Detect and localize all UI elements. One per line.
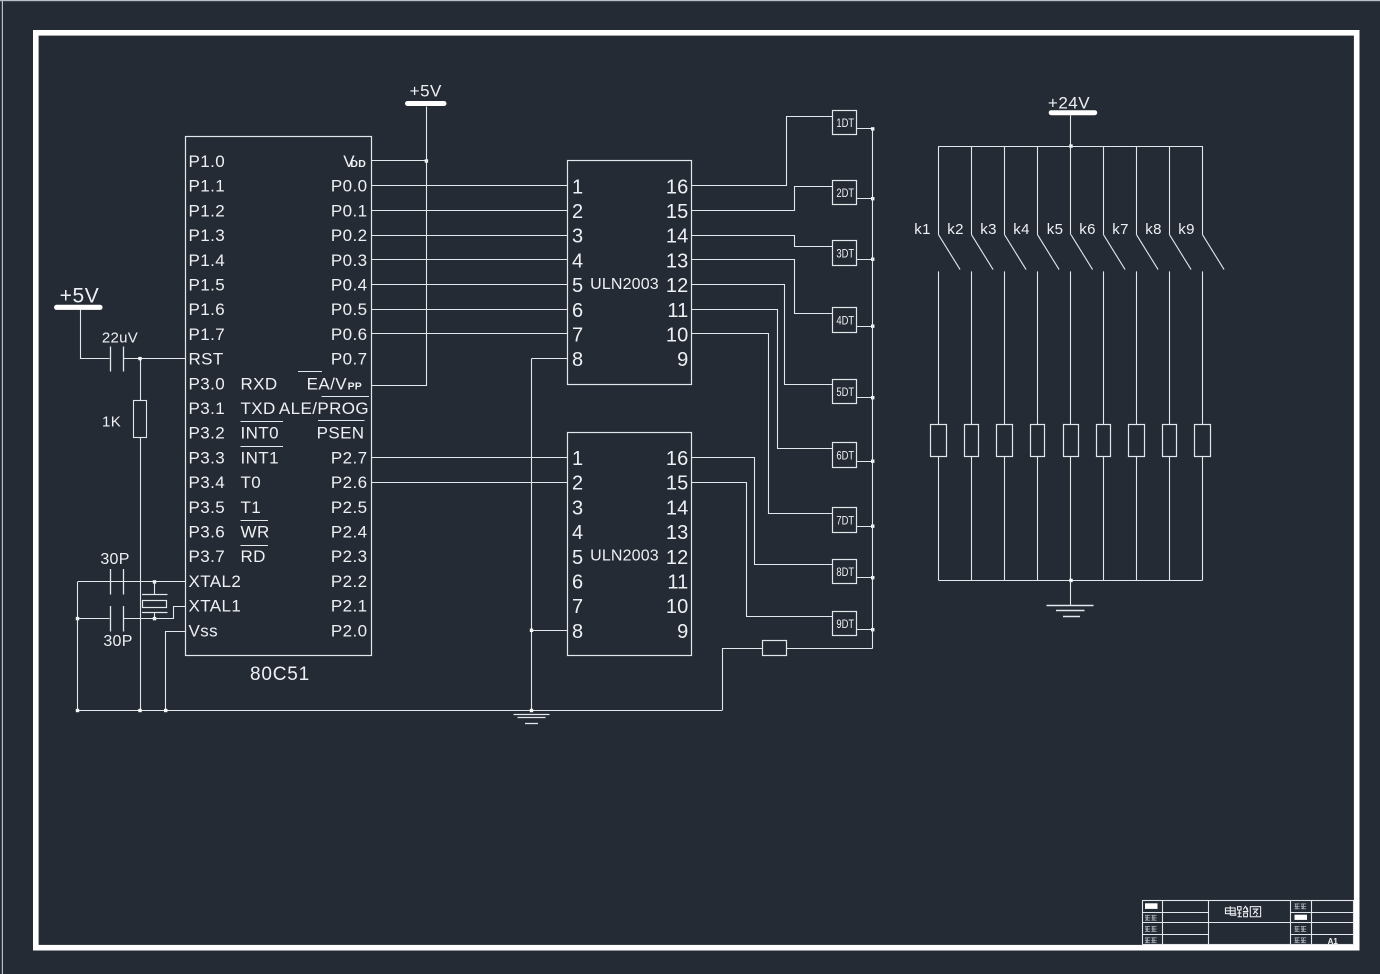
wire P0.1 to ULN2003(A) pin 2 — [371, 210, 568, 212]
svg-text:P1.4: P1.4 — [189, 251, 226, 270]
svg-text:P0.1: P0.1 — [331, 201, 368, 220]
U2 pin number 2 — [572, 201, 583, 223]
svg-text:3: 3 — [572, 226, 583, 248]
switch k5 blade — [1071, 235, 1093, 270]
resistor RL7 body — [1129, 425, 1145, 457]
wire ULN output to 2DT — [692, 187, 833, 211]
pin label P3.5 — [189, 498, 226, 517]
title block label hang2 (left row3) — [1145, 926, 1157, 931]
svg-text:16: 16 — [666, 448, 689, 470]
resistor RL1 body — [931, 425, 947, 457]
svg-text:RST: RST — [189, 350, 224, 369]
svg-text:14: 14 — [666, 226, 689, 248]
resistor RL5 body — [1064, 425, 1079, 457]
svg-text:10: 10 — [666, 325, 689, 347]
ic U1 80C51 body — [186, 137, 372, 656]
svg-text:5DT: 5DT — [836, 385, 854, 399]
wire VDD stub — [371, 160, 426, 162]
pin label XTAL1 — [189, 597, 242, 616]
title block label hang3 (left row4) — [1145, 938, 1157, 943]
svg-text:+24V: +24V — [1048, 93, 1090, 112]
wire XTAL2 row — [78, 581, 186, 583]
label k2 — [947, 221, 963, 238]
wire +24V to top bus — [1070, 115, 1072, 146]
pin label P2.6 — [331, 473, 368, 492]
U3 pin number 1 — [572, 448, 583, 470]
resistor RL6 body — [1097, 425, 1111, 457]
junction node rail/ULN pin8 — [530, 709, 533, 712]
label 2DT — [836, 186, 854, 200]
wire DT common bus — [872, 129, 874, 648]
wire bottom bus — [939, 580, 1203, 582]
svg-text:ULN2003: ULN2003 — [590, 548, 659, 565]
svg-text:13: 13 — [666, 522, 689, 544]
pin label P1.3 — [189, 226, 226, 245]
svg-text:6: 6 — [572, 300, 583, 322]
wire P0.3 to ULN2003(A) pin 4 — [371, 259, 568, 261]
switch k7 blade — [1137, 235, 1159, 270]
wire RL2 to bottom bus — [971, 456, 973, 580]
U3 pin number 15 — [666, 473, 689, 495]
pin label P2.7 — [331, 448, 368, 467]
power symbol +5V (left) — [54, 285, 103, 310]
svg-text:k3: k3 — [980, 221, 996, 238]
label k6 — [1079, 221, 1095, 238]
junction node crystal top — [153, 580, 156, 583]
svg-text:P1.0: P1.0 — [189, 152, 226, 171]
svg-text:15: 15 — [666, 473, 689, 495]
svg-text:EA/V: EA/V — [307, 374, 348, 393]
svg-text:1: 1 — [572, 448, 583, 470]
svg-text:P0.5: P0.5 — [331, 300, 368, 319]
pin function label INT1 (active low) — [241, 447, 284, 468]
switch k8 blade — [1170, 235, 1192, 270]
wire C1 to RST — [124, 358, 186, 360]
svg-text:DD: DD — [350, 158, 366, 170]
svg-text:Vss: Vss — [189, 621, 219, 640]
resistor R2 body — [763, 641, 787, 656]
crystal Y1 — [142, 582, 168, 619]
junction node bus/7DT — [871, 525, 874, 528]
wire top bus — [939, 146, 1203, 148]
svg-text:7DT: 7DT — [836, 513, 854, 527]
U3 pin number 16 — [666, 448, 689, 470]
svg-text:ALE/PROG: ALE/PROG — [279, 399, 369, 418]
wire ULN output to 4DT — [692, 260, 833, 314]
junction node rail/left vertical — [76, 709, 79, 712]
pin function label TXD — [241, 399, 276, 418]
junction node bus/6DT — [871, 460, 874, 463]
wire switch k2 lower — [971, 271, 973, 425]
svg-text:P3.2: P3.2 — [189, 424, 226, 443]
pin label P0.6 — [331, 325, 368, 344]
power symbol +24V — [1048, 93, 1097, 115]
wire U2 pin8 down to ground — [531, 359, 533, 711]
wire RL5 to bottom bus — [1070, 456, 1072, 580]
wire 6DT to bus — [857, 461, 873, 463]
label 30P (C2) — [100, 551, 129, 568]
solenoid box 1DT — [833, 111, 857, 135]
resistor RL3 body — [997, 425, 1013, 457]
U2 pin number 12 — [666, 275, 689, 297]
svg-text:P3.0: P3.0 — [189, 374, 226, 393]
pin label XTAL2 — [189, 572, 242, 591]
svg-text:+5V: +5V — [60, 285, 100, 308]
solenoid box 5DT — [833, 380, 857, 404]
U3 pin number 4 — [572, 522, 583, 544]
wire R2 to ground rail — [723, 649, 763, 711]
title text 电路图 — [1225, 906, 1260, 917]
svg-text:RD: RD — [241, 547, 266, 566]
svg-text:22uV: 22uV — [102, 330, 138, 347]
label 9DT — [836, 617, 854, 631]
label k9 — [1178, 221, 1194, 238]
junction node bus/1DT — [871, 127, 874, 130]
wire RL6 to bottom bus — [1103, 456, 1105, 580]
U2 pin number 8 — [572, 349, 583, 371]
pin label P2.0 — [331, 621, 368, 640]
wire U3 pin8 stub — [532, 630, 568, 632]
svg-text:P3.7: P3.7 — [189, 547, 226, 566]
svg-text:P3.1: P3.1 — [189, 399, 226, 418]
wire C3 to left vertical — [78, 618, 110, 620]
svg-text:P1.7: P1.7 — [189, 325, 226, 344]
junction node bus/2DT — [871, 197, 874, 200]
wire P0.2 to ULN2003(A) pin 3 — [371, 235, 568, 237]
wire switch k7 lower — [1136, 271, 1138, 425]
svg-text:80C51: 80C51 — [250, 664, 310, 685]
pin function label INT0 (active low) — [241, 422, 284, 443]
wire P2.7 to ULN2003(B) pin 1 — [371, 457, 568, 459]
svg-text:10: 10 — [666, 596, 689, 618]
svg-text:k8: k8 — [1145, 221, 1161, 238]
pin label P3.7 — [189, 547, 226, 566]
ground symbol (right) — [1047, 606, 1094, 617]
label 3DT — [836, 246, 854, 260]
wire XTAL1 step — [155, 607, 186, 619]
pin label P0.2 — [331, 226, 368, 245]
svg-text:k6: k6 — [1079, 221, 1095, 238]
pin label P3.3 — [189, 448, 226, 467]
U2 pin number 10 — [666, 325, 689, 347]
wire 4DT to bus — [857, 326, 873, 328]
ground rail wire — [78, 710, 723, 712]
svg-text:1K: 1K — [102, 414, 121, 431]
wire switch k6 upper — [1103, 146, 1105, 235]
pin label P2.5 — [331, 498, 368, 517]
svg-text:13: 13 — [666, 250, 689, 272]
pin function label RD (active low) — [241, 546, 269, 567]
wire +5V vertical to EA/VPP — [372, 107, 427, 386]
svg-text:12: 12 — [666, 275, 689, 297]
wire P0.5 to ULN2003(A) pin 6 — [371, 309, 568, 311]
wire switch k4 lower — [1037, 271, 1039, 425]
junction node crystal bottom — [153, 617, 156, 620]
resistor RL9 body — [1195, 425, 1211, 457]
label k3 — [980, 221, 996, 238]
svg-text:P2.3: P2.3 — [331, 547, 368, 566]
svg-text:30P: 30P — [103, 633, 132, 650]
svg-text:16: 16 — [666, 176, 689, 198]
pin label P1.7 — [189, 325, 226, 344]
wire switch k1 lower — [938, 271, 940, 425]
svg-text:RXD: RXD — [241, 374, 278, 393]
svg-text:k5: k5 — [1047, 221, 1063, 238]
svg-text:4: 4 — [572, 522, 583, 544]
svg-text:P3.3: P3.3 — [189, 448, 226, 467]
U2 pin number 13 — [666, 250, 689, 272]
svg-text:k4: k4 — [1013, 221, 1029, 238]
junction node RST/R1 — [138, 357, 141, 360]
svg-text:P1.1: P1.1 — [189, 177, 226, 196]
label 5DT — [836, 385, 854, 399]
svg-text:4DT: 4DT — [836, 313, 854, 327]
title block label hang1 (left row2) — [1145, 915, 1157, 920]
svg-text:12: 12 — [666, 547, 689, 569]
label 22uV — [102, 330, 138, 347]
pin label P1.4 — [189, 251, 226, 270]
wire P0.4 to ULN2003(A) pin 5 — [371, 284, 568, 286]
svg-text:11: 11 — [667, 572, 688, 594]
svg-text:P0.3: P0.3 — [331, 251, 368, 270]
wire P0.0 to ULN2003(A) pin 1 — [371, 185, 568, 187]
solenoid box 4DT — [833, 308, 857, 333]
sheet edge line left — [2, 0, 3, 974]
junction node U3 pin8 — [530, 629, 533, 632]
svg-text:XTAL2: XTAL2 — [189, 572, 242, 591]
label 30P (C3) — [103, 633, 132, 650]
svg-text:2: 2 — [572, 473, 583, 495]
pin label PSEN (active low) — [317, 421, 365, 443]
wire to ground (right) — [1070, 580, 1072, 604]
label 80C51 — [250, 664, 310, 685]
switch k2 blade — [972, 235, 994, 270]
wire switch k3 upper — [1004, 146, 1006, 235]
svg-text:P2.7: P2.7 — [331, 448, 368, 467]
svg-text:P0.4: P0.4 — [331, 276, 368, 295]
pin label P3.4 — [189, 473, 226, 492]
pin label P3.6 — [189, 523, 226, 542]
svg-text:8: 8 — [572, 621, 583, 643]
svg-text:P2.0: P2.0 — [331, 621, 368, 640]
wire P0.6 to ULN2003(A) pin 7 — [371, 333, 568, 335]
svg-text:T0: T0 — [241, 473, 262, 492]
svg-text:1DT: 1DT — [836, 116, 854, 130]
U2 pin number 16 — [666, 176, 689, 198]
pin label P0.5 — [331, 300, 368, 319]
pin label P1.1 — [189, 177, 226, 196]
pin function label RXD — [241, 374, 278, 393]
wire node to R1 — [140, 359, 142, 401]
svg-text:PSEN: PSEN — [317, 424, 365, 443]
svg-text:P0.2: P0.2 — [331, 226, 368, 245]
solenoid box 9DT — [833, 612, 857, 636]
svg-text:3DT: 3DT — [836, 246, 854, 260]
U2 pin number 5 — [572, 275, 583, 297]
label k8 — [1145, 221, 1161, 238]
junction node rail/Vss — [164, 709, 167, 712]
label 1DT — [836, 116, 854, 130]
U2 pin number 3 — [572, 226, 583, 248]
ic U3 ULN2003 body — [568, 433, 692, 656]
label 6DT — [836, 448, 854, 462]
wire ULN output to 7DT — [692, 334, 833, 514]
wire switch k7 upper — [1136, 146, 1138, 235]
svg-text:P3.6: P3.6 — [189, 523, 226, 542]
label k1 — [914, 221, 930, 238]
U3 pin number 9 — [677, 621, 688, 643]
pin label P0.1 — [331, 201, 368, 220]
wire 2DT to bus — [857, 198, 873, 200]
U3 pin number 13 — [666, 522, 689, 544]
svg-text:9DT: 9DT — [836, 617, 854, 631]
wire switch k5 lower — [1070, 271, 1072, 425]
svg-text:P2.2: P2.2 — [331, 572, 368, 591]
pin label P2.3 — [331, 547, 368, 566]
wire RL8 to bottom bus — [1169, 456, 1171, 580]
capacitor C2 30P plates — [111, 569, 124, 595]
wire switch k1 upper — [938, 146, 940, 235]
svg-text:5: 5 — [572, 547, 583, 569]
svg-text:P1.3: P1.3 — [189, 226, 226, 245]
U3 pin number 7 — [572, 596, 583, 618]
U3 pin number 5 — [572, 547, 583, 569]
svg-text:T1: T1 — [241, 498, 262, 517]
solenoid box 3DT — [833, 241, 857, 266]
pin label EA/VPP (EA active low) — [298, 372, 362, 394]
solenoid box 8DT — [833, 560, 857, 584]
svg-text:9: 9 — [677, 621, 688, 643]
svg-text:P2.5: P2.5 — [331, 498, 368, 517]
pin label P2.1 — [331, 597, 368, 616]
junction node bus/8DT — [871, 576, 874, 579]
svg-text:P0.7: P0.7 — [331, 350, 368, 369]
svg-text:P1.2: P1.2 — [189, 201, 226, 220]
svg-text:+5V: +5V — [410, 81, 442, 100]
pin label P2.4 — [331, 523, 368, 542]
solenoid box 2DT — [833, 181, 857, 205]
label 4DT — [836, 313, 854, 327]
pin function label WR (active low) — [241, 521, 270, 542]
svg-text:4: 4 — [572, 250, 583, 272]
pin function label T1 — [241, 498, 262, 517]
svg-text:P2.1: P2.1 — [331, 597, 368, 616]
ground symbol (left) — [514, 715, 550, 724]
svg-text:2DT: 2DT — [836, 186, 854, 200]
wire 1DT to bus — [857, 128, 873, 130]
wire switch k6 lower — [1103, 271, 1105, 425]
wire switch k8 upper — [1169, 146, 1171, 235]
pin label P0.4 — [331, 276, 368, 295]
capacitor C1 22uV plates — [111, 347, 124, 372]
svg-text:k1: k1 — [914, 221, 930, 238]
wire 9DT to bus — [857, 629, 873, 631]
label 1K — [102, 414, 121, 431]
resistor R1 1K body — [134, 401, 147, 438]
switch k9 blade — [1203, 235, 1225, 270]
svg-text:XTAL1: XTAL1 — [189, 597, 242, 616]
label 7DT — [836, 513, 854, 527]
wire switch k9 lower — [1202, 271, 1204, 425]
U2 pin number 1 — [572, 176, 583, 198]
svg-text:7: 7 — [572, 325, 583, 347]
wire RL3 to bottom bus — [1004, 456, 1006, 580]
title block label drawing no — [1295, 938, 1307, 943]
resistor RL8 body — [1163, 425, 1177, 457]
title block label scale — [1295, 926, 1307, 931]
svg-text:14: 14 — [666, 497, 689, 519]
resistor RL2 body — [965, 425, 979, 457]
U3 pin number 8 — [572, 621, 583, 643]
svg-text:k7: k7 — [1112, 221, 1128, 238]
U3 pin number 6 — [572, 572, 583, 594]
wire 5DT to bus — [857, 397, 873, 399]
junction node bus/4DT — [871, 325, 874, 328]
svg-text:15: 15 — [666, 201, 689, 223]
wire Vss step — [166, 632, 186, 711]
svg-text:WR: WR — [241, 523, 270, 542]
svg-text:INT0: INT0 — [241, 424, 279, 443]
U2 pin number 14 — [666, 226, 689, 248]
title block filled cell (row1 left) — [1145, 903, 1158, 909]
wire RL7 to bottom bus — [1136, 456, 1138, 580]
wire ULN output to 1DT — [692, 117, 833, 186]
junction node bottom bus/ground — [1069, 579, 1072, 582]
pin label P1.6 — [189, 300, 226, 319]
svg-text:6DT: 6DT — [836, 448, 854, 462]
junction node bus/5DT — [871, 396, 874, 399]
title block text A1 — [1328, 937, 1339, 946]
svg-text:30P: 30P — [100, 551, 129, 568]
switch k4 blade — [1038, 235, 1060, 270]
pin label P1.5 — [189, 276, 226, 295]
capacitor C3 30P plates — [111, 606, 124, 632]
label k7 — [1112, 221, 1128, 238]
svg-text:P1.5: P1.5 — [189, 276, 226, 295]
pin label VDD — [343, 152, 366, 171]
solenoid box 6DT — [833, 443, 857, 468]
wire 3DT to bus — [857, 259, 873, 261]
pin label P0.3 — [331, 251, 368, 270]
svg-text:INT1: INT1 — [241, 448, 279, 467]
wire 8DT to bus — [857, 577, 873, 579]
svg-text:P0.6: P0.6 — [331, 325, 368, 344]
wire ULN output to 8DT — [692, 458, 833, 565]
label ULN2003 (U3) — [590, 548, 659, 565]
pin label P2.2 — [331, 572, 368, 591]
svg-text:5: 5 — [572, 275, 583, 297]
U3 pin number 12 — [666, 547, 689, 569]
junction node bus/3DT — [871, 258, 874, 261]
label ULN2003 (U2) — [590, 276, 659, 293]
title block filled cell (row2 right) — [1295, 915, 1308, 920]
svg-text:9: 9 — [677, 349, 688, 371]
solenoid box 7DT — [833, 508, 857, 533]
U2 pin number 7 — [572, 325, 583, 347]
resistor RL4 body — [1031, 425, 1045, 457]
wire ULN output to 3DT — [692, 236, 833, 247]
junction node VDD — [425, 159, 428, 162]
svg-text:8: 8 — [572, 349, 583, 371]
wire ULN output to 9DT — [692, 483, 833, 617]
switch k1 blade — [939, 235, 961, 270]
junction node bus/9DT — [871, 628, 874, 631]
wire switch k9 upper — [1202, 146, 1204, 235]
pin label P1.0 — [189, 152, 226, 171]
title block grid — [1142, 901, 1354, 946]
title block label material — [1295, 904, 1307, 909]
svg-text:k9: k9 — [1178, 221, 1194, 238]
